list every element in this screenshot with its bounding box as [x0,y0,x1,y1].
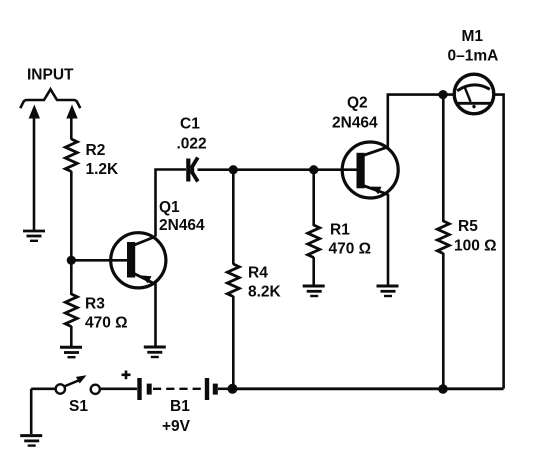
svg-text:470 Ω: 470 Ω [329,241,372,258]
capacitor C1 [188,158,198,182]
transistor Q1 [111,233,166,288]
svg-text:C1: C1 [180,116,200,133]
wire left input vertical [33,117,36,230]
input terminal arrow right [66,105,77,119]
ground R3 [60,347,82,357]
node base junction [67,256,76,265]
ground S1 [20,436,42,446]
battery plus sign [122,371,131,380]
transistor Q2 [342,142,398,198]
svg-text:+9V: +9V [162,418,191,435]
wire C1 to Q2 base [198,168,357,171]
node R5 rail junction [438,384,448,394]
input brace [20,89,80,108]
wire R2 to base junction [70,171,73,295]
node battery rail junction [228,384,238,394]
wire right input vertical to R2 [70,117,73,140]
ground Q2 emitter [377,286,399,296]
wire R5 bottom to rail [442,253,445,389]
node R5 tap top [438,90,447,99]
svg-text:B1: B1 [170,398,190,415]
node R1 tap [309,165,318,174]
wire meter right to right-side drop [494,95,504,389]
wire base junction to Q1 base [71,259,127,262]
resistor R1 [308,225,320,258]
wire R1 to ground [312,257,315,285]
resistor R3 [65,294,77,327]
battery B1 [140,378,233,400]
svg-text:2N464: 2N464 [159,217,205,234]
node R4 tap [229,165,238,174]
input terminal arrow left [29,105,40,119]
ground input left [23,231,45,241]
wire R4 top [232,170,235,265]
ground Q1 emitter [144,347,166,357]
resistor R4 [227,264,239,297]
svg-text:470 Ω: 470 Ω [85,315,128,332]
wire S1 to battery [100,387,137,390]
svg-text:.022: .022 [177,136,207,153]
wire Q1 collector up and to C1 [156,170,187,237]
svg-text:2N464: 2N464 [332,115,378,132]
wire S1 left down to ground [30,389,33,434]
svg-text:Q1: Q1 [159,199,180,216]
svg-text:R1: R1 [330,222,350,239]
svg-text:R4: R4 [248,265,268,282]
svg-text:100 Ω: 100 Ω [454,238,497,255]
svg-text:S1: S1 [69,398,88,415]
svg-text:M1: M1 [462,28,484,45]
svg-text:8.2K: 8.2K [248,284,282,301]
wire Q2 emitter down [387,194,390,285]
svg-text:R5: R5 [458,218,478,235]
resistor R5 [442,95,445,222]
wire R4 bottom to rail [232,296,235,389]
svg-text:INPUT: INPUT [27,67,74,84]
resistor R2 [65,139,77,172]
svg-text:1.2K: 1.2K [86,161,120,178]
ground R1 [303,286,325,296]
svg-text:R3: R3 [85,296,105,313]
wire bottom rail [233,387,504,390]
svg-text:0–1mA: 0–1mA [448,48,499,65]
wire Q2 collector up to top rail [388,95,455,148]
wire Q1 emitter down [154,283,157,347]
switch S1 [31,375,100,394]
svg-text:R2: R2 [86,142,106,159]
wire R1 top [312,170,315,226]
meter M1 [454,74,494,114]
wire R3 to ground [70,326,73,346]
svg-text:Q2: Q2 [347,95,368,112]
